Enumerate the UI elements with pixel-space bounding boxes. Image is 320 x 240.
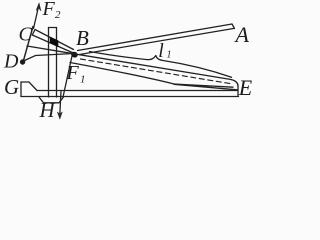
svg-text:1: 1 (167, 50, 172, 61)
base bottom line (21, 96, 239, 98)
svg-text:B: B (76, 26, 89, 50)
blade dashed centerline (81, 59, 232, 84)
force arrow F2 head (36, 3, 41, 11)
base top step near G (21, 82, 37, 91)
force arrow H shaft (60, 91, 61, 115)
handle end cap at A (232, 24, 235, 29)
svg-text:A: A (234, 22, 250, 47)
blade back edge from B down (63, 56, 72, 97)
force arrow F2 shaft (34, 8, 39, 29)
rod C-B left end cap (32, 30, 35, 36)
base top surface line (37, 90, 237, 92)
curly brace for l1, right arm (156, 56, 232, 78)
link C-D line (23, 27, 33, 62)
blade rounded corner at E (231, 80, 238, 86)
vertical post right line (56, 28, 58, 98)
blade right end cap (237, 86, 239, 97)
base left vertical edge (20, 82, 22, 97)
svg-text:E: E (238, 75, 253, 100)
link D to B (bent connecting rod) (25, 54, 74, 61)
blade bevel edge line (174, 84, 237, 90)
black pin in slot (50, 37, 59, 48)
svg-text:l: l (158, 40, 164, 62)
rod C-B lower edge (32, 35, 74, 54)
svg-text:H: H (39, 98, 57, 121)
pivot D dot (20, 59, 25, 64)
force arrow H head (57, 112, 62, 119)
curly brace for l1, left arm (90, 52, 156, 60)
svg-text:F: F (42, 0, 56, 20)
svg-text:2: 2 (55, 9, 61, 21)
svg-text:G: G (4, 75, 19, 99)
svg-text:C: C (19, 24, 33, 46)
handle upper line B to A (78, 24, 233, 51)
rod C-B upper edge (35, 30, 74, 50)
handle lower line B to A (80, 29, 234, 55)
pivot B junction dot (70, 51, 78, 59)
svg-text:D: D (3, 51, 19, 73)
vertical post top cap (49, 27, 57, 29)
blade top edge (extends left of B) (27, 46, 231, 80)
blade bottom edge (70, 63, 174, 85)
vertical post left line (48, 28, 50, 98)
mounting funnel under base (39, 97, 64, 103)
svg-text:F: F (66, 62, 80, 84)
svg-text:1: 1 (80, 74, 86, 86)
